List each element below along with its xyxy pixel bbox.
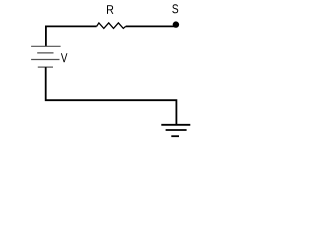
- label R: [107, 5, 113, 14]
- ground: bar 1 (top, longest): [161, 124, 190, 126]
- label S: [172, 4, 178, 13]
- ground: bar 3 (bottom, shortest): [171, 135, 179, 137]
- battery V: long plate 1 (top, positive): [31, 45, 60, 47]
- wire: resistor to node S: [126, 25, 176, 27]
- node S (terminal dot): [173, 21, 179, 27]
- battery V: short plate 2 (bottom, negative): [38, 66, 53, 68]
- ground: bar 2 (middle): [166, 129, 187, 131]
- wire: battery negative down, right and up to ground: [46, 67, 177, 125]
- wire: battery positive terminal up and right to resistor: [46, 26, 97, 46]
- battery V: long plate 2: [31, 59, 59, 61]
- label V: [61, 53, 68, 62]
- battery V: short plate 1: [37, 52, 53, 54]
- resistor R: [97, 23, 126, 29]
